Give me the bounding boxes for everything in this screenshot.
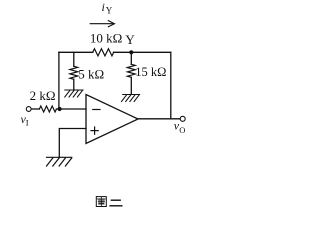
wire right vertical to output: [170, 52, 172, 119]
op-amp minus sign: [93, 109, 100, 111]
svg-text:10 kΩ: 10 kΩ: [90, 31, 122, 46]
svg-text:O: O: [179, 125, 185, 135]
svg-text:2 kΩ: 2 kΩ: [30, 88, 56, 103]
wire 5k branch stub: [73, 52, 75, 66]
wire output: [138, 118, 180, 120]
svg-text:i: i: [102, 0, 105, 14]
svg-text:Y: Y: [125, 32, 135, 47]
node Y junction dot: [129, 50, 133, 54]
wire 5k to ground: [73, 79, 75, 90]
wire input to 2k: [31, 108, 39, 110]
wire left vertical (feedback to inverting node): [58, 52, 60, 109]
ground (under 15k): [122, 95, 140, 102]
resistor R 10k: [93, 49, 114, 56]
inverting node junction dot: [58, 107, 62, 111]
op-amp plus sign: [91, 127, 98, 134]
label vI: [21, 112, 29, 128]
ground (under 5k): [65, 90, 83, 97]
op-amp U1: [86, 95, 138, 144]
wire top-left segment: [59, 51, 93, 53]
caption 圖二 (Figure 2) drawn as vector glyphs: [96, 197, 121, 207]
resistor 5k: [70, 66, 78, 79]
wire top-right segment: [114, 51, 171, 53]
input terminal vI: [26, 107, 31, 112]
resistor 15k: [127, 64, 135, 77]
svg-text:15 kΩ: 15 kΩ: [135, 65, 166, 79]
resistor 2k: [39, 106, 56, 112]
wire 2k to inverting node: [56, 108, 86, 110]
wire non-inverting input: [59, 129, 86, 158]
output terminal vO: [180, 116, 185, 121]
label vO: [174, 119, 186, 135]
wire 15k branch stub: [130, 52, 132, 64]
svg-text:5 kΩ: 5 kΩ: [78, 66, 104, 81]
svg-text:Y: Y: [106, 5, 113, 15]
current label iY: [102, 0, 113, 15]
wire 15k to ground: [130, 77, 132, 94]
svg-text:I: I: [26, 118, 29, 128]
current arrow iY: [90, 21, 114, 27]
ground (non-inverting input): [47, 157, 72, 166]
